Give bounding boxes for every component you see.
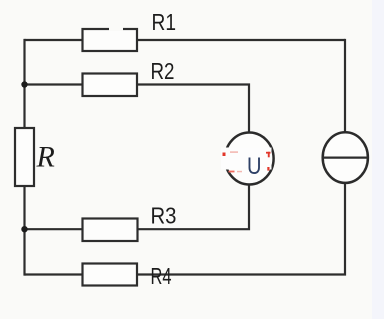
wire top-left: node to R1 left [25,39,83,41]
label R2 [151,58,175,84]
junction node A (left, R2 row) [21,81,27,87]
red selection dashes around U [223,151,271,172]
svg-text:R: R [36,141,55,174]
label R1 [152,9,177,35]
wire R4 right to bottom-right corner and up to source [137,183,345,275]
svg-text:R2: R2 [151,58,175,84]
svg-text:U: U [247,153,262,180]
resistor R4 [83,264,138,286]
resistor R2 [83,74,138,97]
wire R3 left [25,228,83,230]
voltmeter U [221,133,274,185]
right edge tint [372,0,384,319]
resistor R [15,128,34,186]
svg-text:R3: R3 [151,202,177,228]
wire R3 right to voltmeter bottom [138,184,250,229]
label R3 [151,202,177,228]
wire left vertical upper [23,39,25,128]
wire R2 left [25,83,83,85]
svg-text:R4: R4 [151,263,172,289]
wire left vertical lower [23,186,25,276]
current source [323,132,368,183]
wire R1 right to top-right corner [137,39,345,41]
resistor R1 [83,27,138,51]
label R [36,141,55,174]
junction node B (left, R3 row) [21,226,27,232]
resistor R3 [83,219,138,242]
label U [247,153,262,180]
wire R2 right to voltmeter top [137,85,249,133]
svg-text:R1: R1 [152,9,177,35]
label R4 [151,263,172,289]
wire right vertical top to source [344,39,346,133]
wire bottom-left: node to R4 [25,273,83,275]
